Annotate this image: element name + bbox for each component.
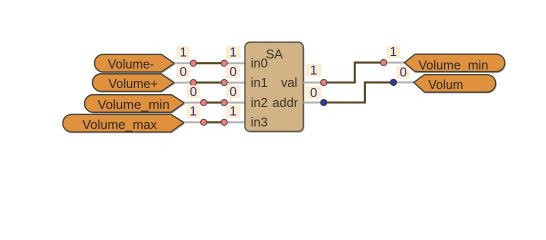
svg-text:Volume-: Volume- xyxy=(108,57,154,71)
junction dot in2 b xyxy=(221,100,227,106)
svg-text:0: 0 xyxy=(230,64,237,79)
wire in2 gray to block pin xyxy=(224,102,245,104)
svg-text:Volume_min: Volume_min xyxy=(98,97,170,112)
value label row2 at pin "0" xyxy=(226,85,241,98)
junction dot in3 b xyxy=(221,119,227,125)
wire in3 gray to block pin xyxy=(224,121,245,123)
svg-text:1: 1 xyxy=(230,45,237,60)
svg-text:in0: in0 xyxy=(251,56,268,71)
value label addr out "0" xyxy=(306,86,322,99)
junction dot in0 a xyxy=(190,60,196,66)
value label at tag Volume_min "1" xyxy=(387,46,401,59)
tag Volume_max shadow xyxy=(64,116,185,134)
value label row0 at pin "1" xyxy=(226,46,241,59)
wire in0 gray to block pin xyxy=(224,62,245,64)
svg-text:0: 0 xyxy=(230,84,237,99)
value label at tag Volum "0" xyxy=(396,66,410,79)
tag Volum shadow xyxy=(415,76,497,94)
wire addr gray from block xyxy=(303,102,324,104)
tag Volume_max xyxy=(63,114,184,132)
junction dot in0 b xyxy=(221,60,227,66)
value label val out "1" xyxy=(306,64,322,77)
wire in0 gray from tag xyxy=(174,62,194,64)
svg-text:1: 1 xyxy=(310,63,317,78)
junction dot in1 a xyxy=(190,80,196,86)
value label row1 at tag "0" xyxy=(177,65,190,78)
svg-text:1: 1 xyxy=(230,104,237,119)
svg-text:1: 1 xyxy=(390,44,397,59)
svg-text:in3: in3 xyxy=(251,115,268,130)
tag Volume- shadow xyxy=(96,56,176,74)
wire addr brown bend xyxy=(324,82,394,102)
svg-text:0: 0 xyxy=(190,84,197,99)
junction dot addr a xyxy=(321,99,327,105)
wire in2 gray from tag xyxy=(184,102,204,104)
value label row2 at tag "0" xyxy=(187,85,200,98)
wire in2 brown xyxy=(204,102,225,104)
block SA shadow xyxy=(246,44,304,133)
wire in1 gray from tag xyxy=(174,82,194,84)
value label row3 at pin "1" xyxy=(226,105,241,118)
wire addr gray to tag Volum xyxy=(394,81,415,83)
tag Volume+ xyxy=(92,74,174,92)
value label row0 at tag "1" xyxy=(177,46,190,59)
svg-text:in1: in1 xyxy=(251,75,268,90)
svg-text:Volume_max: Volume_max xyxy=(82,117,157,132)
wire in0 brown xyxy=(193,62,224,64)
svg-text:0: 0 xyxy=(400,64,407,79)
wire val gray to tag Volume_min xyxy=(384,62,405,64)
tag Volume- xyxy=(95,54,175,72)
svg-text:in2: in2 xyxy=(251,95,268,110)
tag Volume_min left xyxy=(85,95,185,113)
junction dot val a xyxy=(321,79,327,85)
junction dot val b xyxy=(381,60,387,66)
junction dot addr b xyxy=(390,79,396,85)
svg-text:1: 1 xyxy=(180,45,187,60)
wire in1 brown xyxy=(193,82,224,84)
junction dot in1 b xyxy=(221,80,227,86)
svg-text:Volume_min: Volume_min xyxy=(418,58,488,72)
value label row1 at pin "0" xyxy=(226,65,241,78)
svg-text:val: val xyxy=(281,75,297,90)
tag Volume_min right shadow xyxy=(405,55,505,73)
svg-text:addr: addr xyxy=(272,95,298,110)
tag Volume+ shadow xyxy=(93,75,175,93)
wire val brown bend xyxy=(324,63,384,83)
tag Volum xyxy=(414,75,496,93)
tag Volume_min right xyxy=(404,54,504,72)
wire in1 gray to block pin xyxy=(224,82,245,84)
svg-text:1: 1 xyxy=(189,104,196,119)
svg-text:Volum: Volum xyxy=(428,78,463,92)
wire val gray from block xyxy=(303,82,324,84)
junction dot in2 a xyxy=(201,100,207,106)
junction dot in3 a xyxy=(201,119,207,125)
svg-text:0: 0 xyxy=(310,85,317,100)
block SA body xyxy=(245,42,303,131)
wire in3 gray from tag xyxy=(184,121,205,123)
tag Volume_min left shadow xyxy=(86,96,186,114)
svg-text:0: 0 xyxy=(180,64,187,79)
wire in3 brown xyxy=(204,121,225,123)
svg-text:SA: SA xyxy=(266,47,284,62)
svg-text:Volume+: Volume+ xyxy=(109,77,158,91)
value label row3 at tag "1" xyxy=(187,105,200,118)
